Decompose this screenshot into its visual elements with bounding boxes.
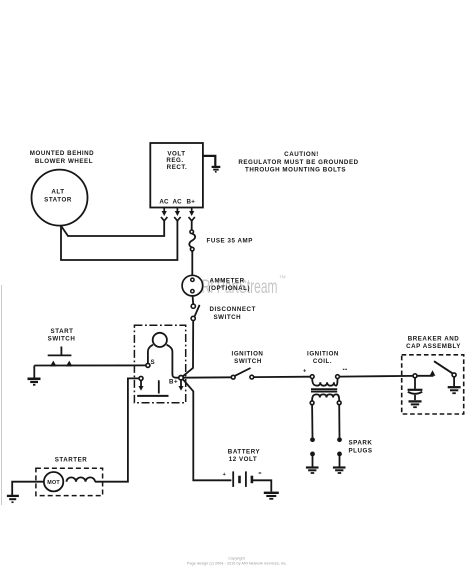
svg-text:BATTERY: BATTERY [228, 449, 261, 456]
svg-text:+: + [303, 368, 307, 374]
svg-text:START: START [51, 328, 74, 335]
svg-text:(OPTIONAL): (OPTIONAL) [209, 285, 251, 292]
svg-text:SWITCH: SWITCH [214, 314, 242, 321]
svg-text:SWITCH: SWITCH [234, 358, 262, 365]
svg-text:B+: B+ [187, 199, 196, 206]
svg-text:+: + [223, 472, 227, 478]
svg-text:Copyright: Copyright [228, 557, 245, 561]
svg-text:ALT: ALT [51, 189, 64, 196]
svg-text:COIL.: COIL. [313, 358, 332, 365]
svg-text:AMMETER: AMMETER [210, 277, 245, 284]
svg-text:CAUTION!: CAUTION! [284, 151, 319, 158]
svg-text:BLOWER WHEEL: BLOWER WHEEL [35, 158, 93, 165]
svg-text:IGNITION: IGNITION [232, 351, 264, 358]
svg-text:CAP ASSEMBLY: CAP ASSEMBLY [406, 343, 461, 350]
svg-text:IGNITION: IGNITION [307, 351, 339, 358]
svg-text:REGULATOR MUST BE GROUNDED: REGULATOR MUST BE GROUNDED [238, 159, 358, 166]
svg-text:RECT.: RECT. [167, 164, 188, 171]
svg-text:SWITCH: SWITCH [48, 336, 76, 343]
svg-text:SPARK: SPARK [349, 440, 373, 447]
svg-text:Page design (c) 2004 - 2016 by: Page design (c) 2004 - 2016 by ARI Netwo… [187, 562, 287, 566]
svg-text:AC: AC [159, 199, 169, 206]
svg-text:DISCONNECT: DISCONNECT [210, 306, 256, 313]
svg-text:MOT: MOT [47, 480, 60, 486]
svg-text:AC: AC [173, 199, 183, 206]
svg-text:12 VOLT: 12 VOLT [229, 456, 258, 463]
svg-text:STARTER: STARTER [55, 457, 88, 464]
svg-text:THROUGH MOUNTING BOLTS: THROUGH MOUNTING BOLTS [245, 167, 346, 174]
svg-text:BREAKER AND: BREAKER AND [408, 336, 460, 343]
svg-text:MOUNTED BEHIND: MOUNTED BEHIND [30, 150, 94, 157]
svg-text:™: ™ [279, 274, 287, 283]
svg-text:B+: B+ [169, 378, 178, 385]
svg-text:STATOR: STATOR [44, 197, 72, 204]
svg-text:FUSE 35 AMP: FUSE 35 AMP [207, 238, 253, 245]
svg-text:PLUGS: PLUGS [349, 447, 373, 454]
svg-text:S: S [151, 359, 156, 366]
